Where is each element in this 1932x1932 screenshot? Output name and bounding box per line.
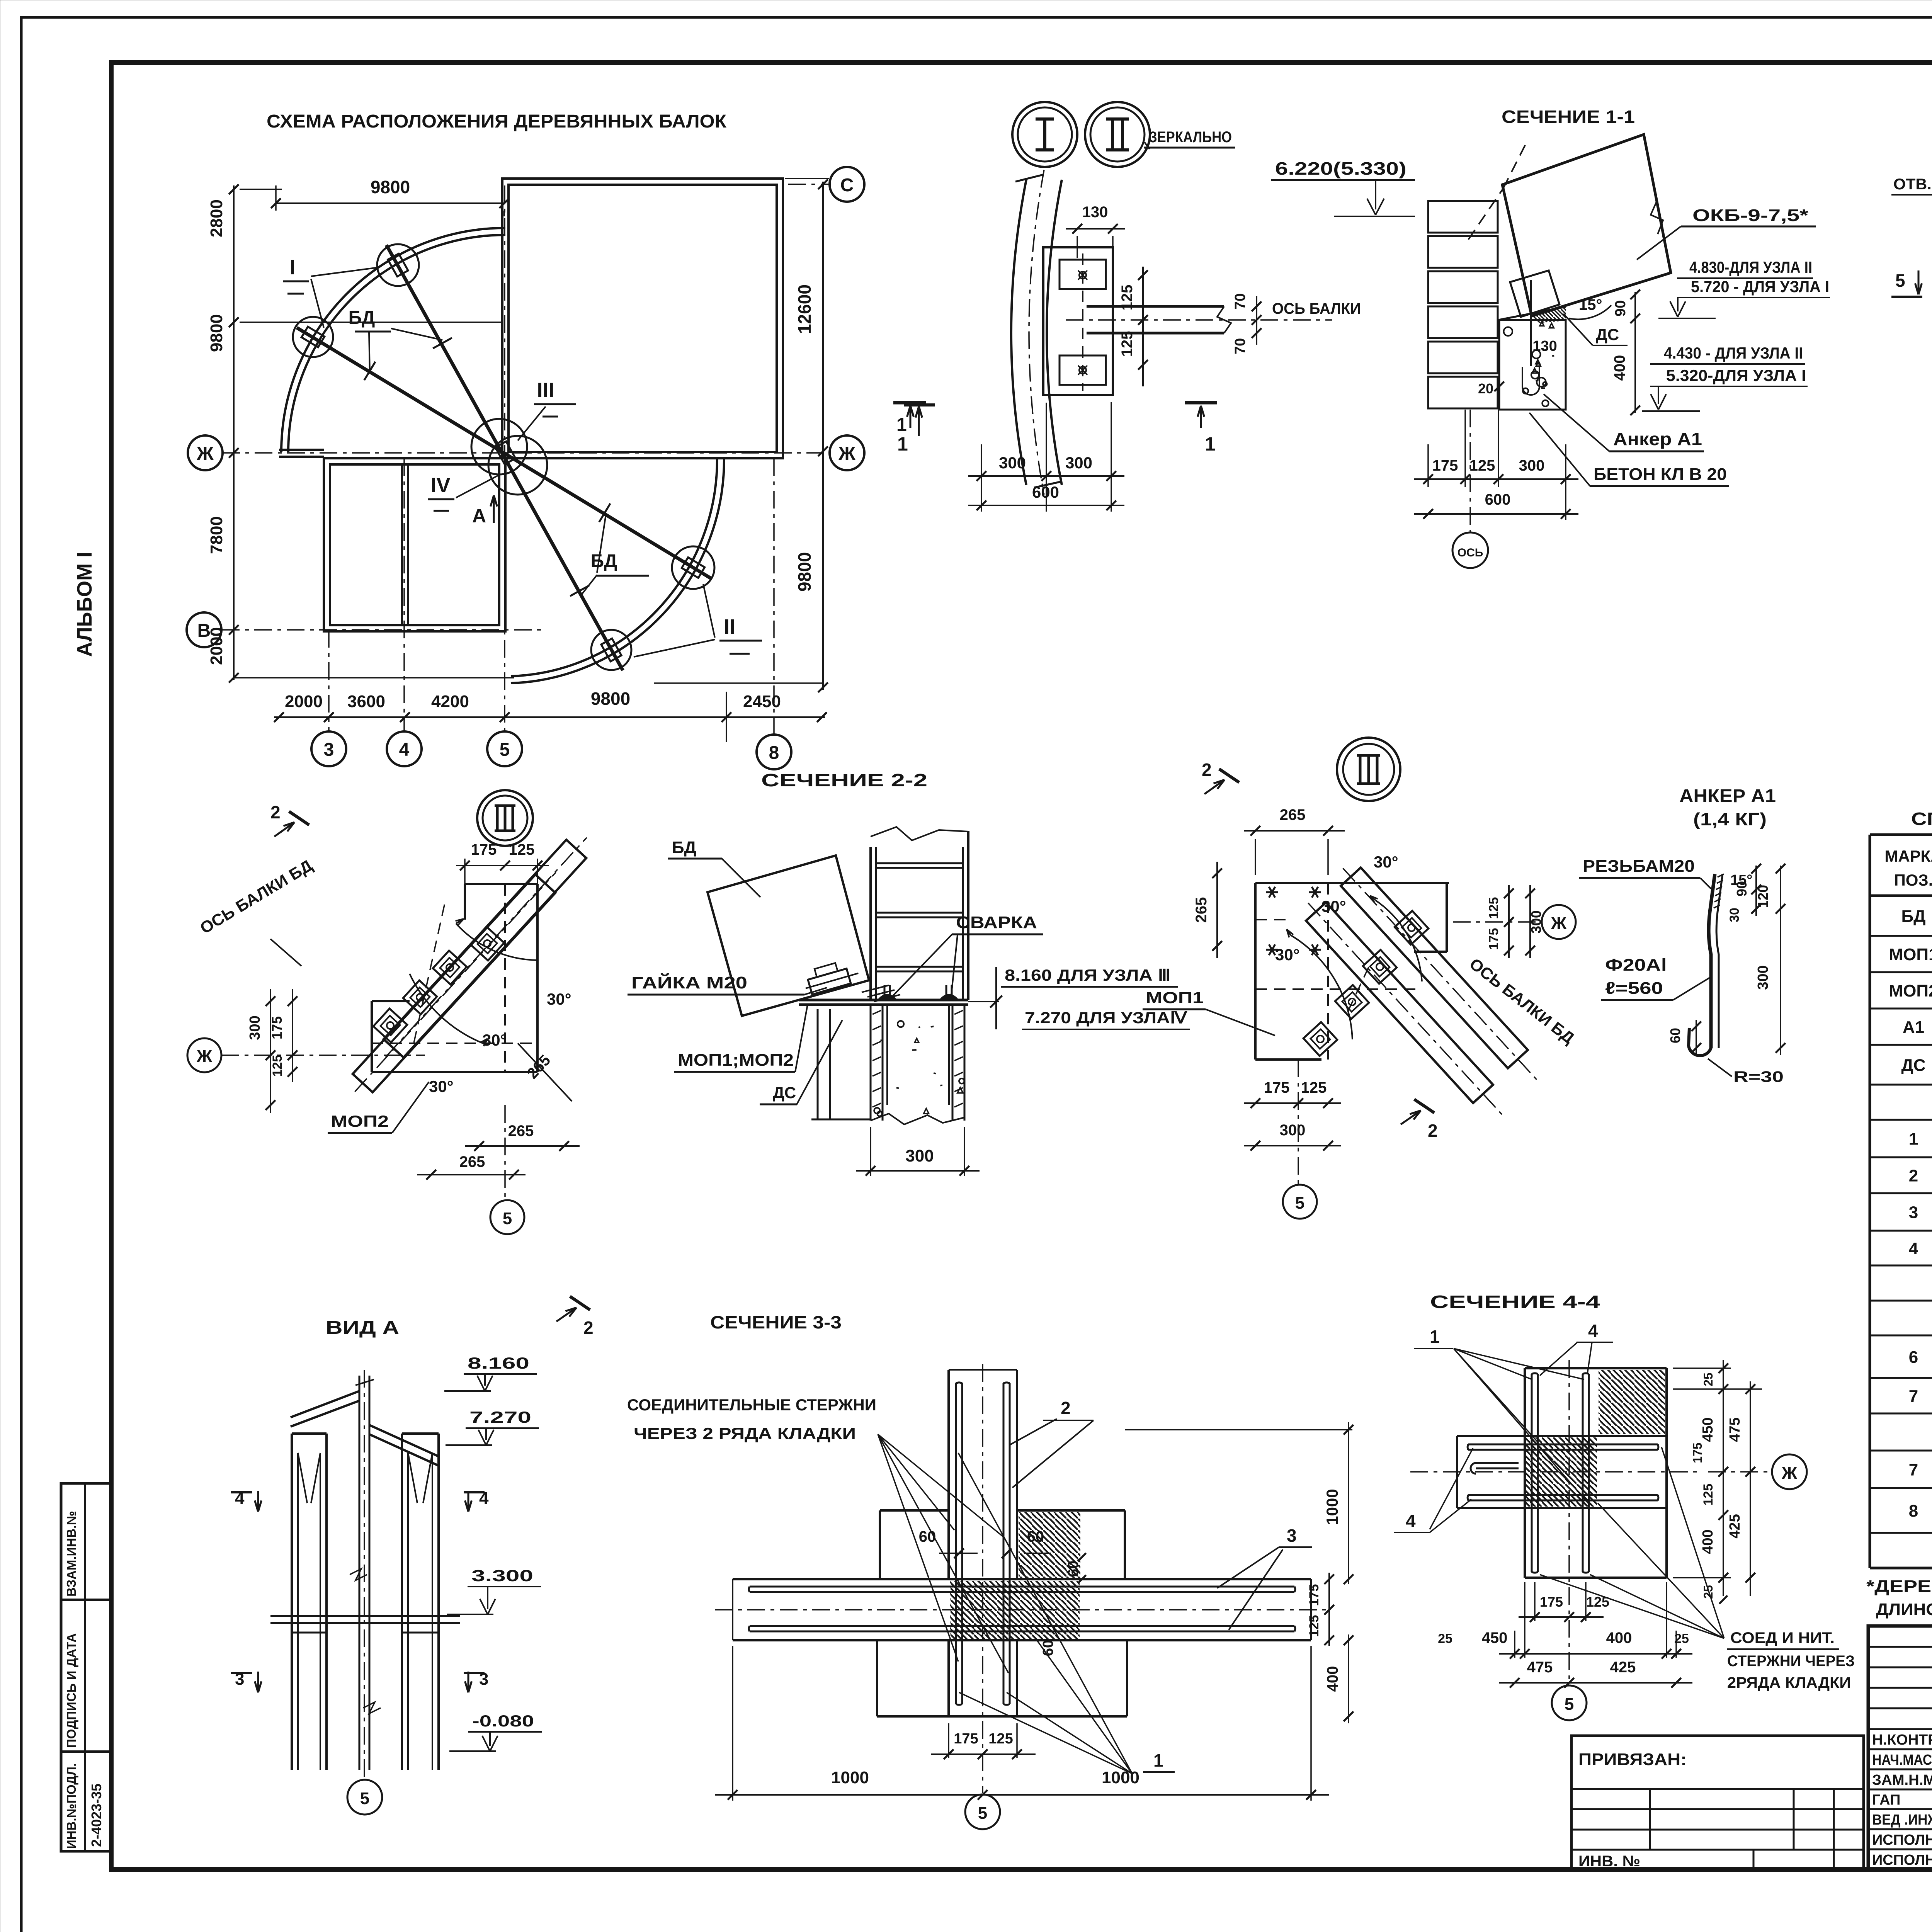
svg-text:ПОДПИСЬ И ДАТА: ПОДПИСЬ И ДАТА — [64, 1633, 78, 1748]
svg-text:2-4023-35: 2-4023-35 — [88, 1784, 104, 1847]
svg-text:30°: 30° — [429, 1077, 454, 1095]
svg-text:2: 2 — [583, 1318, 594, 1338]
svg-text:125: 125 — [1701, 1484, 1716, 1506]
svg-text:I: I — [289, 256, 295, 279]
svg-text:5.720 - ДЛЯ УЗЛА I: 5.720 - ДЛЯ УЗЛА I — [1691, 277, 1829, 296]
svg-text:300: 300 — [905, 1146, 934, 1165]
svg-text:ЧЕРЕЗ 2 РЯДА КЛАДКИ: ЧЕРЕЗ 2 РЯДА КЛАДКИ — [634, 1424, 856, 1442]
svg-text:СХЕМА РАСПОЛОЖЕНИЯ ДЕРЕВЯННЫХ: СХЕМА РАСПОЛОЖЕНИЯ ДЕРЕВЯННЫХ БАЛОК — [267, 111, 727, 132]
svg-text:90: 90 — [1734, 881, 1750, 896]
svg-text:175: 175 — [1486, 928, 1501, 950]
svg-text:7.270 ДЛЯ УЗЛАⅣ: 7.270 ДЛЯ УЗЛАⅣ — [1025, 1009, 1187, 1027]
svg-text:90: 90 — [1612, 300, 1629, 316]
svg-text:СЕЧЕНИЕ 1-1: СЕЧЕНИЕ 1-1 — [1502, 107, 1635, 127]
svg-text:2РЯДА КЛАДКИ: 2РЯДА КЛАДКИ — [1727, 1674, 1851, 1691]
svg-text:4.430 - ДЛЯ УЗЛА II: 4.430 - ДЛЯ УЗЛА II — [1664, 344, 1803, 362]
svg-text:175: 175 — [1264, 1079, 1290, 1096]
svg-text:5: 5 — [503, 1209, 512, 1228]
svg-text:30°: 30° — [547, 990, 571, 1008]
svg-text:(1,4 КГ): (1,4 КГ) — [1693, 809, 1767, 829]
svg-text:6.220(5.330): 6.220(5.330) — [1275, 158, 1406, 179]
svg-text:425: 425 — [1727, 1514, 1743, 1538]
svg-text:ДС: ДС — [1901, 1056, 1925, 1075]
svg-text:2: 2 — [1202, 760, 1212, 780]
svg-text:7.270: 7.270 — [469, 1408, 531, 1426]
svg-text:5: 5 — [1295, 1194, 1304, 1213]
svg-text:2450: 2450 — [743, 692, 781, 711]
svg-text:ЗЕРКАЛЬНО: ЗЕРКАЛЬНО — [1149, 129, 1232, 146]
svg-text:30: 30 — [1727, 908, 1742, 922]
svg-text:ИСПОЛН.: ИСПОЛН. — [1872, 1852, 1932, 1868]
svg-text:6: 6 — [1909, 1348, 1918, 1367]
svg-text:МОП1;МОП2: МОП1;МОП2 — [678, 1051, 794, 1070]
svg-text:450: 450 — [1482, 1629, 1508, 1646]
svg-text:1: 1 — [1430, 1327, 1440, 1347]
svg-text:Ж: Ж — [196, 444, 214, 464]
svg-text:30°: 30° — [1275, 946, 1300, 964]
svg-text:300: 300 — [1528, 910, 1544, 934]
svg-text:С: С — [840, 175, 854, 196]
svg-text:400: 400 — [1324, 1666, 1341, 1692]
svg-text:ВЕД .ИНЖ: ВЕД .ИНЖ — [1872, 1812, 1932, 1828]
svg-text:ГАП: ГАП — [1872, 1792, 1900, 1808]
svg-text:-0.080: -0.080 — [472, 1712, 534, 1730]
svg-text:ДС: ДС — [773, 1083, 796, 1102]
svg-text:5: 5 — [500, 740, 510, 760]
svg-text:Ж: Ж — [1781, 1464, 1797, 1483]
svg-text:4: 4 — [1588, 1321, 1598, 1341]
svg-text:СВАРКА: СВАРКА — [956, 913, 1037, 932]
svg-text:300: 300 — [247, 1015, 263, 1040]
svg-text:Н.КОНТР.: Н.КОНТР. — [1872, 1732, 1932, 1748]
svg-text:МАРКА: МАРКА — [1884, 847, 1932, 865]
svg-text:СЕЧЕНИЕ 2-2: СЕЧЕНИЕ 2-2 — [761, 770, 927, 790]
svg-text:ОКБ-9-7,5*: ОКБ-9-7,5* — [1692, 206, 1809, 225]
svg-text:300: 300 — [1519, 457, 1545, 474]
svg-text:R=30: R=30 — [1733, 1068, 1784, 1085]
svg-text:450: 450 — [1700, 1417, 1716, 1442]
svg-text:1: 1 — [1205, 433, 1216, 455]
svg-text:Анкер А1: Анкер А1 — [1613, 429, 1702, 449]
svg-text:МОП1: МОП1 — [1146, 988, 1204, 1007]
svg-text:5: 5 — [1895, 270, 1905, 291]
svg-text:400: 400 — [1611, 355, 1628, 381]
svg-text:3600: 3600 — [347, 692, 385, 711]
svg-text:СОЕДИНИТЕЛЬНЫЕ СТЕРЖНИ: СОЕДИНИТЕЛЬНЫЕ СТЕРЖНИ — [627, 1396, 876, 1414]
svg-text:IV: IV — [430, 474, 450, 497]
svg-text:30°: 30° — [1374, 853, 1398, 871]
svg-text:7: 7 — [1909, 1387, 1918, 1406]
svg-text:60: 60 — [919, 1528, 936, 1545]
svg-text:125: 125 — [1486, 897, 1501, 919]
svg-text:12600: 12600 — [794, 284, 815, 334]
svg-text:9800: 9800 — [207, 314, 226, 352]
svg-text:8.160 ДЛЯ УЗЛА Ⅲ: 8.160 ДЛЯ УЗЛА Ⅲ — [1005, 966, 1171, 984]
svg-text:БД: БД — [672, 838, 696, 857]
svg-text:4: 4 — [1406, 1511, 1416, 1531]
svg-text:25: 25 — [1701, 1372, 1715, 1386]
svg-text:60: 60 — [1065, 1561, 1082, 1577]
svg-text:ОСЬ БАЛКИ: ОСЬ БАЛКИ — [1272, 300, 1361, 317]
svg-text:125: 125 — [1469, 457, 1495, 474]
svg-text:8.160: 8.160 — [468, 1354, 529, 1372]
svg-text:АНКЕР А1: АНКЕР А1 — [1679, 786, 1776, 806]
svg-text:СЕЧЕНИЕ 3-3: СЕЧЕНИЕ 3-3 — [710, 1312, 842, 1332]
svg-text:СЕЧЕНИЕ 4-4: СЕЧЕНИЕ 4-4 — [1430, 1292, 1600, 1312]
svg-text:4: 4 — [1909, 1239, 1918, 1258]
svg-text:СПЕЦИФИКАЦИЯ К СХЕМЕ РАСПОЛОЖЕ: СПЕЦИФИКАЦИЯ К СХЕМЕ РАСПОЛОЖЕНИЯ ДЕРЕВЯ… — [1911, 809, 1932, 829]
svg-text:3: 3 — [1287, 1526, 1297, 1546]
svg-text:30°: 30° — [1321, 897, 1346, 915]
svg-text:175: 175 — [954, 1731, 978, 1747]
svg-text:600: 600 — [1032, 483, 1059, 501]
svg-text:30°: 30° — [482, 1031, 507, 1049]
svg-text:25: 25 — [1438, 1631, 1452, 1646]
svg-text:БД: БД — [349, 308, 375, 328]
svg-text:20: 20 — [1478, 381, 1493, 396]
svg-text:265: 265 — [459, 1153, 485, 1170]
svg-text:II: II — [724, 615, 735, 638]
svg-text:425: 425 — [1610, 1659, 1636, 1676]
svg-text:175: 175 — [1540, 1594, 1563, 1610]
svg-text:9800: 9800 — [794, 552, 815, 592]
svg-text:175: 175 — [269, 1016, 285, 1039]
svg-text:2000: 2000 — [207, 627, 226, 665]
svg-text:300: 300 — [999, 454, 1026, 472]
svg-text:5: 5 — [1565, 1695, 1574, 1714]
svg-text:БЕТОН КЛ В 20: БЕТОН КЛ В 20 — [1594, 465, 1727, 484]
svg-text:9800: 9800 — [591, 689, 630, 709]
svg-text:25: 25 — [1674, 1631, 1689, 1646]
svg-text:2000: 2000 — [285, 692, 323, 711]
svg-text:Ж: Ж — [838, 444, 855, 464]
svg-text:475: 475 — [1527, 1659, 1553, 1676]
svg-text:МОП1: МОП1 — [1889, 945, 1932, 964]
svg-text:3: 3 — [324, 740, 334, 760]
svg-text:*ДЕРЕВЯННАЯ КЛЕЕНАЯ БАЛКА ОКБ-: *ДЕРЕВЯННАЯ КЛЕЕНАЯ БАЛКА ОКБ-9-7,5 ВЫПО… — [1866, 1577, 1932, 1596]
svg-text:НАЧ.МАСТ: НАЧ.МАСТ — [1872, 1752, 1932, 1768]
svg-text:РЕЗЬБАМ20: РЕЗЬБАМ20 — [1583, 857, 1695, 876]
svg-text:4.830-ДЛЯ УЗЛА II: 4.830-ДЛЯ УЗЛА II — [1689, 258, 1812, 276]
svg-text:175: 175 — [471, 841, 497, 858]
svg-text:70: 70 — [1232, 338, 1248, 354]
svg-text:130: 130 — [1532, 338, 1557, 354]
svg-text:СТЕРЖНИ ЧЕРЕЗ: СТЕРЖНИ ЧЕРЕЗ — [1727, 1653, 1855, 1670]
svg-text:125: 125 — [1307, 1615, 1321, 1637]
svg-text:СОЕД И НИТ.: СОЕД И НИТ. — [1730, 1629, 1835, 1646]
svg-text:ОТВ.Ф20: ОТВ.Ф20 — [1893, 176, 1932, 193]
svg-text:7: 7 — [1909, 1461, 1918, 1480]
svg-text:ДС: ДС — [1596, 325, 1619, 344]
svg-text:1: 1 — [1153, 1750, 1163, 1770]
svg-text:60: 60 — [1027, 1528, 1044, 1545]
svg-text:70: 70 — [1232, 293, 1248, 310]
svg-text:300: 300 — [1280, 1122, 1306, 1139]
svg-text:265: 265 — [1280, 806, 1306, 823]
svg-text:8: 8 — [769, 743, 779, 763]
svg-text:125: 125 — [509, 841, 535, 858]
svg-text:1000: 1000 — [1102, 1768, 1139, 1787]
svg-text:130: 130 — [1082, 204, 1108, 221]
svg-text:175: 175 — [1307, 1584, 1321, 1606]
svg-text:4: 4 — [399, 740, 410, 760]
svg-text:5: 5 — [978, 1804, 987, 1823]
svg-text:1: 1 — [896, 415, 907, 435]
svg-text:300: 300 — [1755, 965, 1771, 990]
svg-text:ГАЙКА М20: ГАЙКА М20 — [631, 973, 747, 992]
svg-text:175: 175 — [1432, 457, 1458, 474]
svg-text:БД: БД — [1901, 907, 1926, 926]
svg-text:ℓ=560: ℓ=560 — [1605, 979, 1663, 998]
svg-text:МОП2: МОП2 — [331, 1112, 389, 1130]
svg-text:Ж: Ж — [1551, 914, 1566, 933]
svg-text:Ф20АⅠ: Ф20АⅠ — [1605, 956, 1667, 975]
svg-text:125: 125 — [1586, 1594, 1609, 1610]
svg-text:300: 300 — [1065, 454, 1092, 472]
svg-text:125: 125 — [270, 1055, 285, 1077]
svg-text:5.320-ДЛЯ УЗЛА I: 5.320-ДЛЯ УЗЛА I — [1666, 366, 1806, 384]
svg-text:175: 175 — [1690, 1442, 1704, 1463]
svg-text:4200: 4200 — [431, 692, 469, 711]
svg-text:МОП2: МОП2 — [1889, 981, 1932, 1000]
svg-text:2800: 2800 — [207, 199, 226, 237]
svg-text:ВИД А: ВИД А — [326, 1318, 399, 1338]
svg-text:3: 3 — [1909, 1203, 1918, 1222]
svg-text:1000: 1000 — [1323, 1489, 1341, 1525]
svg-text:ЗАМ.Н.М.: ЗАМ.Н.М. — [1872, 1772, 1932, 1788]
svg-text:265: 265 — [508, 1122, 534, 1139]
svg-text:А: А — [472, 505, 486, 527]
svg-text:680: 680 — [1930, 330, 1932, 358]
svg-text:БД: БД — [591, 551, 617, 571]
svg-text:8: 8 — [1909, 1502, 1918, 1520]
svg-text:125: 125 — [1119, 285, 1136, 311]
svg-text:2: 2 — [1428, 1121, 1438, 1141]
svg-text:600: 600 — [1485, 491, 1511, 508]
svg-text:7800: 7800 — [207, 516, 226, 554]
svg-text:3.300: 3.300 — [471, 1566, 533, 1585]
svg-text:2: 2 — [1061, 1398, 1071, 1418]
svg-text:475: 475 — [1727, 1417, 1743, 1442]
svg-text:1: 1 — [897, 433, 908, 455]
svg-text:9800: 9800 — [371, 177, 410, 197]
svg-text:ОСЬ: ОСЬ — [1458, 546, 1483, 559]
svg-text:5: 5 — [360, 1789, 369, 1808]
svg-text:1: 1 — [1909, 1130, 1918, 1149]
svg-text:15°: 15° — [1579, 296, 1602, 313]
svg-text:Ж: Ж — [196, 1047, 212, 1066]
svg-text:ПОЗ.: ПОЗ. — [1894, 871, 1932, 889]
svg-text:А1: А1 — [1903, 1018, 1924, 1037]
svg-text:2: 2 — [270, 802, 281, 822]
svg-text:ИНВ. №: ИНВ. № — [1578, 1853, 1640, 1870]
svg-text:265: 265 — [1193, 897, 1210, 923]
svg-text:60: 60 — [1667, 1028, 1683, 1043]
svg-text:ДЛИНОЙ 9800мм.: ДЛИНОЙ 9800мм. — [1876, 1599, 1932, 1619]
svg-text:400: 400 — [1606, 1629, 1632, 1646]
svg-text:ПРИВЯЗАН:: ПРИВЯЗАН: — [1578, 1750, 1687, 1769]
svg-text:125: 125 — [1301, 1079, 1327, 1096]
svg-text:125: 125 — [1119, 331, 1136, 357]
svg-text:ИСПОЛН.: ИСПОЛН. — [1872, 1832, 1932, 1848]
svg-text:2: 2 — [1909, 1167, 1918, 1185]
svg-text:ИНВ.№ПОДЛ.: ИНВ.№ПОДЛ. — [64, 1763, 78, 1849]
svg-text:1000: 1000 — [831, 1768, 869, 1787]
svg-text:400: 400 — [1700, 1529, 1716, 1554]
svg-text:125: 125 — [988, 1731, 1013, 1747]
svg-text:ВЗАМ.ИНВ.№: ВЗАМ.ИНВ.№ — [64, 1511, 78, 1597]
svg-text:III: III — [537, 379, 554, 402]
svg-text:АЛЬБОМ I: АЛЬБОМ I — [73, 552, 96, 657]
